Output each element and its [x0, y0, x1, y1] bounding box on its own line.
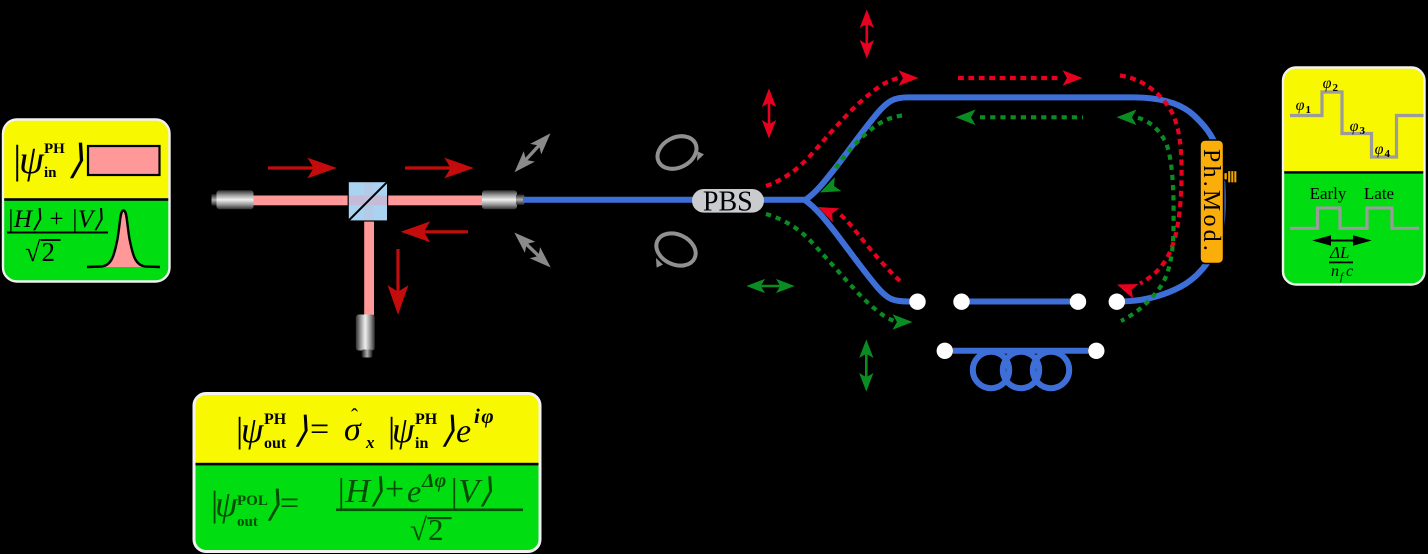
svg-text:2: 2 — [42, 237, 56, 267]
svg-text:⟩: ⟩ — [294, 410, 308, 450]
svg-text:4: 4 — [1385, 148, 1391, 160]
svg-text:PH: PH — [44, 141, 65, 157]
svg-text:ˆ: ˆ — [351, 404, 358, 428]
svg-text:ψ: ψ — [215, 484, 238, 524]
svg-text:φ: φ — [1375, 141, 1384, 158]
svg-text:|H⟩: |H⟩ — [336, 473, 383, 510]
svg-text:e: e — [407, 473, 421, 509]
svg-text:=: = — [310, 411, 329, 448]
svg-text:ΔL: ΔL — [1329, 243, 1349, 262]
svg-text:Δφ: Δφ — [421, 470, 446, 492]
svg-text:3: 3 — [1360, 125, 1366, 137]
svg-text:e: e — [456, 413, 471, 450]
svg-text:√: √ — [410, 512, 427, 547]
svg-text:+: + — [385, 471, 404, 508]
svg-text:⟩: ⟩ — [441, 410, 455, 450]
svg-text:1: 1 — [1306, 104, 1312, 116]
svg-text:PBS: PBS — [703, 186, 753, 217]
svg-text:|V⟩: |V⟩ — [449, 473, 492, 510]
svg-text:φ: φ — [1350, 118, 1359, 135]
svg-text:Late: Late — [1364, 184, 1394, 203]
svg-text:POL: POL — [237, 493, 268, 509]
svg-text:c: c — [1346, 263, 1353, 280]
svg-text:out: out — [264, 435, 287, 452]
svg-text:PH: PH — [415, 411, 438, 428]
svg-text:2: 2 — [1333, 82, 1339, 94]
svg-text:ψ: ψ — [241, 410, 264, 450]
svg-text:n: n — [1331, 263, 1339, 280]
svg-text:φ: φ — [1323, 75, 1332, 92]
svg-text:out: out — [237, 514, 258, 530]
svg-text:ψ: ψ — [392, 410, 415, 450]
svg-text:PH: PH — [264, 411, 287, 428]
svg-text:√: √ — [25, 237, 41, 268]
svg-text:Early: Early — [1310, 184, 1347, 203]
svg-text:in: in — [415, 435, 428, 452]
svg-text:iφ: iφ — [474, 404, 495, 428]
svg-text:in: in — [44, 165, 57, 181]
svg-text:2: 2 — [428, 512, 444, 547]
svg-text:ψ: ψ — [19, 137, 45, 182]
svg-text:Ph.Mod.: Ph.Mod. — [1198, 149, 1224, 254]
svg-text:φ: φ — [1296, 97, 1305, 114]
svg-text:x: x — [365, 433, 375, 452]
svg-text:=: = — [280, 485, 299, 522]
svg-text:|H⟩ + |V⟩: |H⟩ + |V⟩ — [7, 206, 103, 233]
svg-text:⟩: ⟩ — [68, 137, 84, 182]
svg-text:⟩: ⟩ — [266, 484, 280, 524]
